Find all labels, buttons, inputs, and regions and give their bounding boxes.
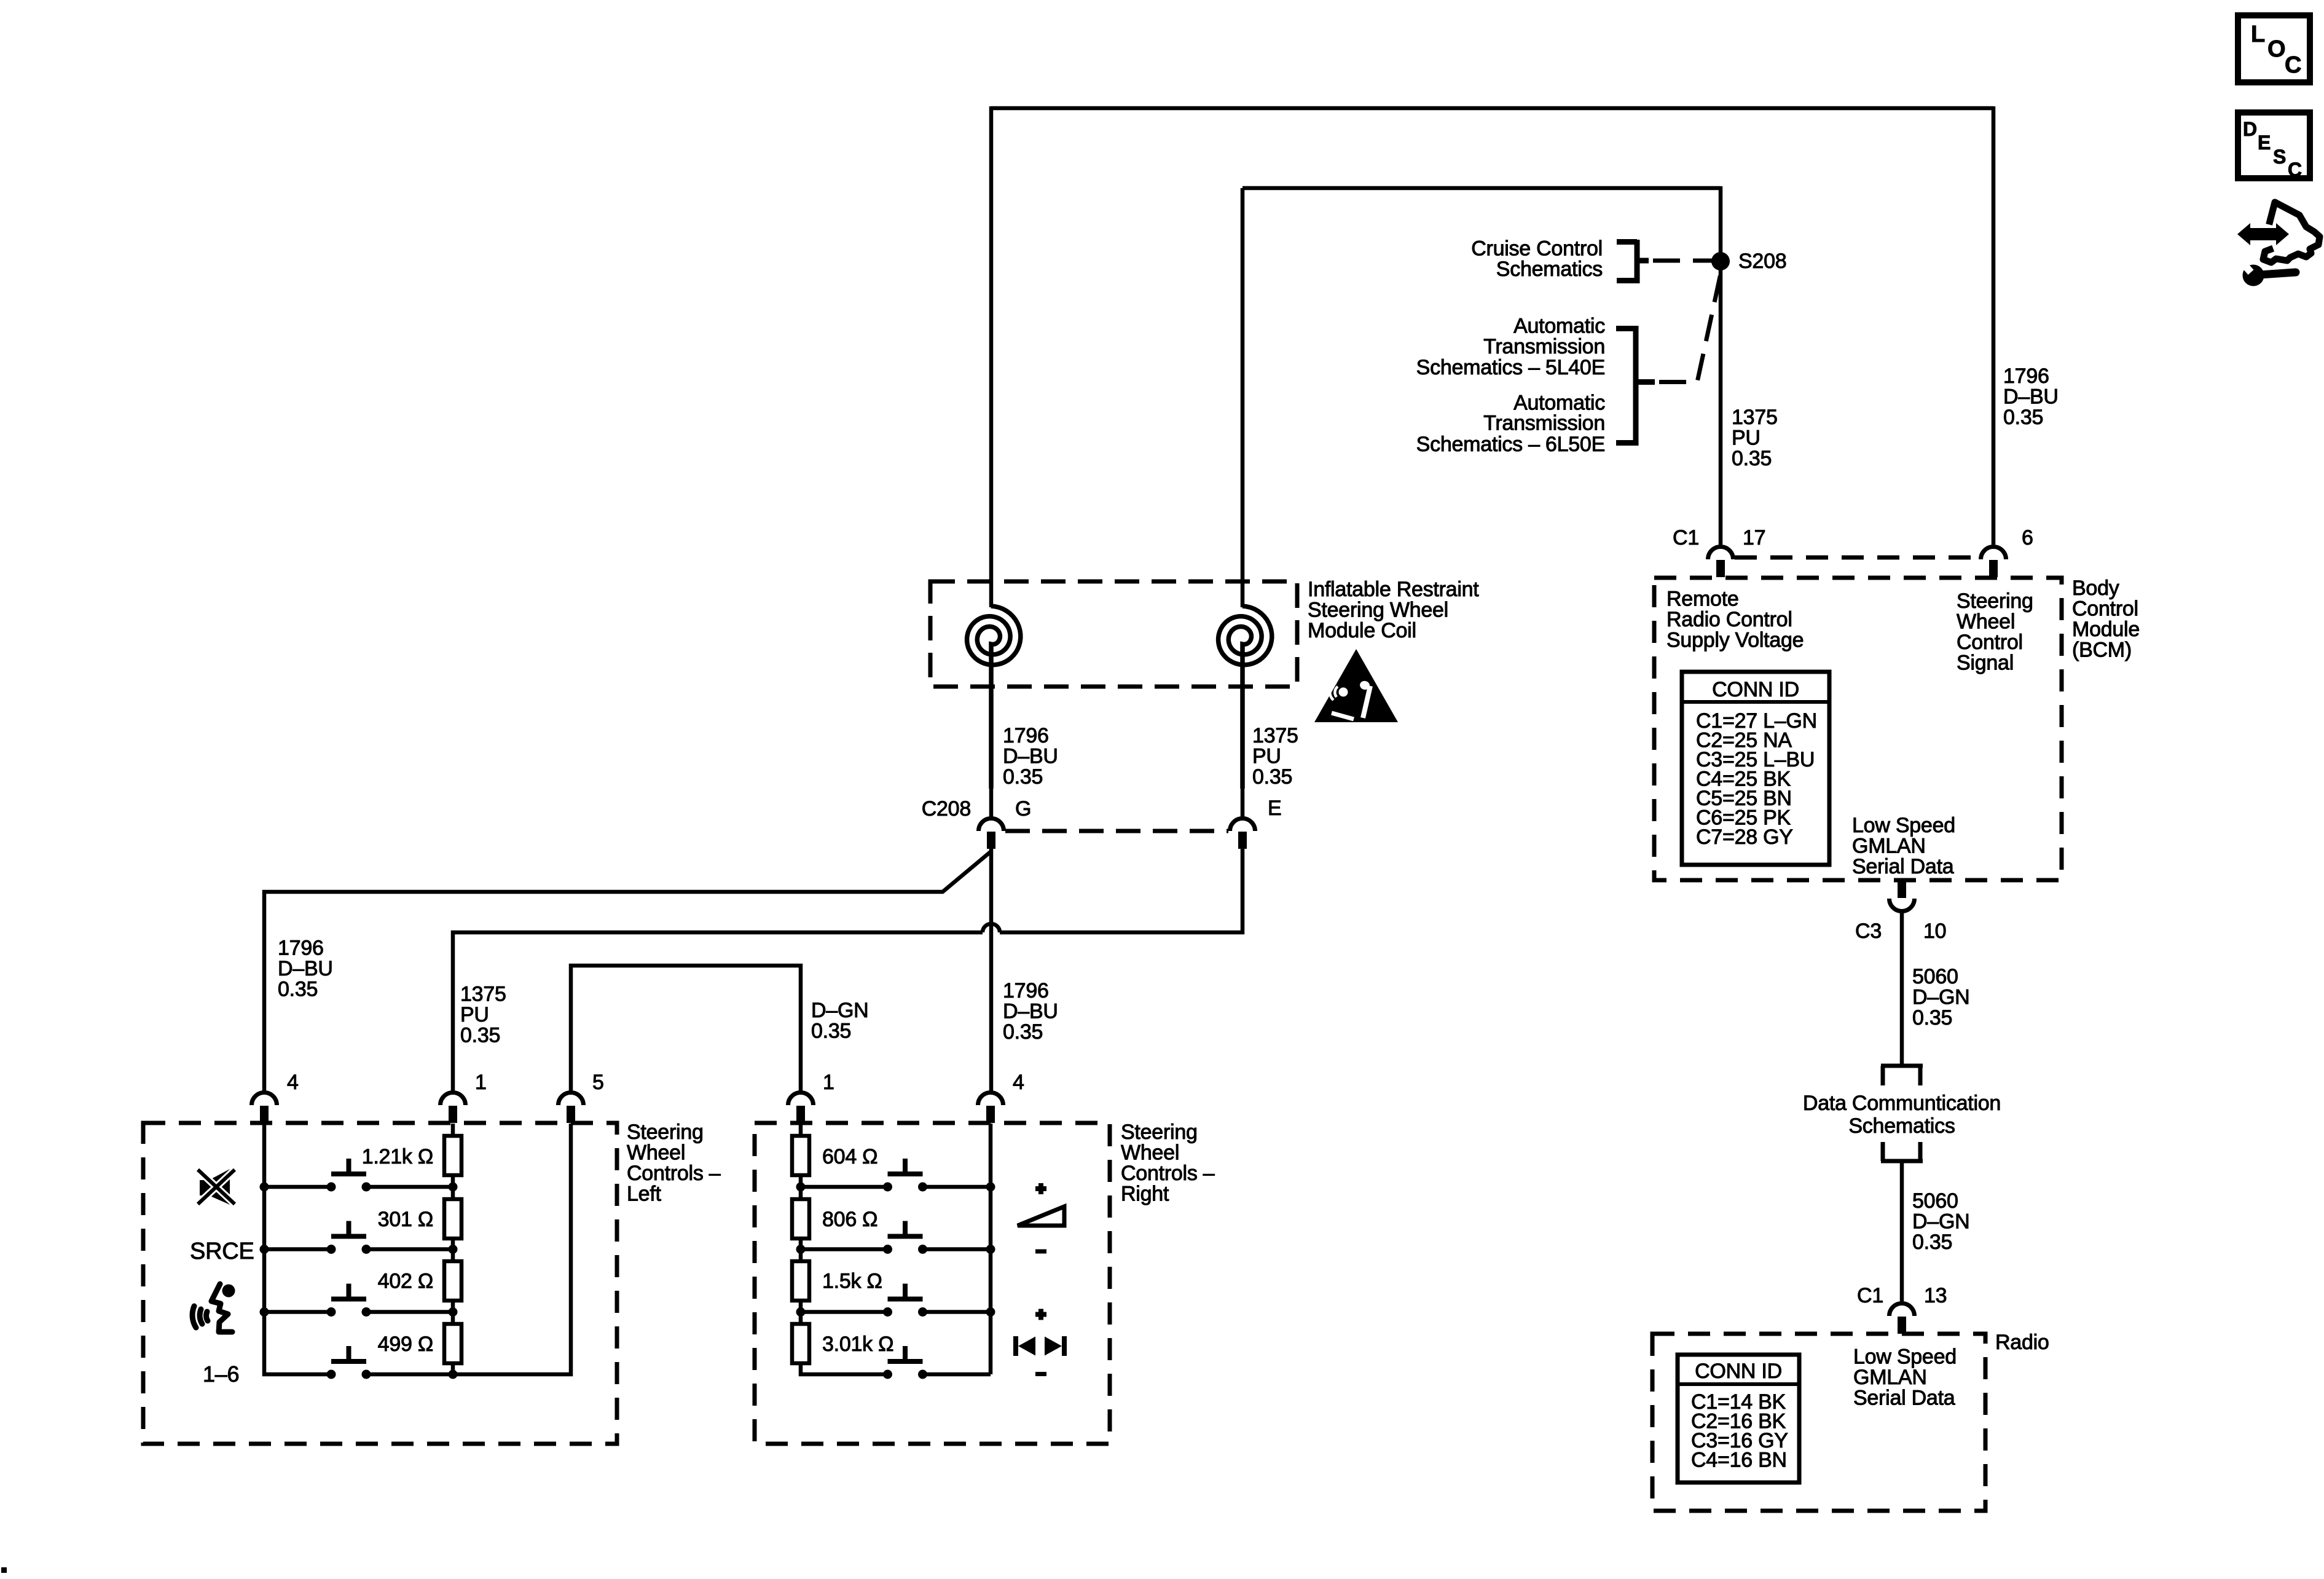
svg-text:6: 6 [2022, 526, 2033, 549]
svg-text:D–BU: D–BU [1003, 745, 1058, 768]
svg-text:1375: 1375 [1252, 724, 1298, 747]
svg-text:0.35: 0.35 [1732, 447, 1772, 470]
svg-text:Supply Voltage: Supply Voltage [1666, 629, 1804, 652]
svg-text:1375: 1375 [1732, 406, 1778, 429]
svg-text:Control: Control [2072, 597, 2138, 621]
svg-text:13: 13 [1924, 1284, 1947, 1307]
svg-text:GMLAN: GMLAN [1852, 835, 1926, 858]
svg-text:Radio: Radio [1995, 1331, 2049, 1354]
svg-text:CONN ID: CONN ID [1695, 1360, 1782, 1383]
svg-text:Schematics: Schematics [1496, 258, 1603, 281]
svg-text:10: 10 [1923, 919, 1946, 943]
svg-text:Wheel: Wheel [627, 1141, 685, 1165]
svg-text:5060: 5060 [1912, 965, 1958, 988]
svg-text:D–BU: D–BU [2003, 385, 2059, 409]
svg-text:Transmission: Transmission [1483, 412, 1605, 435]
svg-text:Radio Control: Radio Control [1666, 608, 1792, 631]
svg-text:D–GN: D–GN [1912, 986, 1969, 1009]
svg-text:S208: S208 [1738, 250, 1786, 273]
svg-text:Automatic: Automatic [1513, 315, 1605, 338]
svg-text:Remote: Remote [1666, 588, 1739, 611]
svg-text:Steering: Steering [1957, 589, 2033, 613]
svg-text:5060: 5060 [1912, 1189, 1958, 1213]
svg-text:Module Coil: Module Coil [1308, 619, 1416, 642]
svg-text:O: O [2267, 36, 2285, 62]
svg-text:Cruise Control: Cruise Control [1471, 237, 1603, 260]
svg-text:PU: PU [1732, 427, 1761, 450]
svg-text:17: 17 [1743, 526, 1765, 549]
svg-text:C: C [2288, 159, 2302, 181]
svg-text:0.35: 0.35 [278, 978, 318, 1001]
svg-text:Data Communtication: Data Communtication [1803, 1092, 2001, 1115]
svg-text:0.35: 0.35 [1003, 1020, 1043, 1044]
svg-text:D: D [2243, 118, 2257, 140]
svg-text:5: 5 [592, 1071, 604, 1094]
svg-text:4: 4 [1013, 1071, 1024, 1094]
svg-text:Left: Left [627, 1183, 662, 1206]
svg-text:Control: Control [1957, 631, 2023, 654]
svg-text:1: 1 [823, 1071, 834, 1094]
svg-text:1: 1 [475, 1071, 487, 1094]
svg-text:C3: C3 [1855, 919, 1882, 943]
svg-text:L: L [2251, 22, 2265, 47]
svg-text:PU: PU [1252, 745, 1281, 768]
svg-text:0.35: 0.35 [2003, 406, 2043, 429]
svg-text:1796: 1796 [2003, 364, 2049, 388]
svg-text:1–6: 1–6 [203, 1361, 239, 1387]
svg-text:0.35: 0.35 [811, 1020, 851, 1043]
svg-text:CONN ID: CONN ID [1712, 678, 1799, 701]
svg-text:604 Ω: 604 Ω [822, 1145, 877, 1168]
svg-text:0.35: 0.35 [460, 1024, 500, 1047]
svg-text:3.01k Ω: 3.01k Ω [822, 1333, 893, 1356]
svg-text:Schematics – 6L50E: Schematics – 6L50E [1416, 433, 1605, 456]
svg-text:C1: C1 [1857, 1284, 1883, 1307]
svg-text:Right: Right [1121, 1183, 1169, 1206]
svg-text:E: E [1268, 797, 1281, 820]
svg-text:Module: Module [2072, 618, 2140, 641]
svg-text:806 Ω: 806 Ω [822, 1208, 877, 1231]
svg-text:E: E [2258, 132, 2271, 154]
svg-text:Low Speed: Low Speed [1853, 1345, 1957, 1369]
svg-text:1.21k Ω: 1.21k Ω [362, 1145, 433, 1168]
svg-text:C208: C208 [922, 797, 971, 821]
svg-text:0.35: 0.35 [1912, 1006, 1952, 1030]
svg-text:D–GN: D–GN [1912, 1210, 1969, 1234]
svg-text:4: 4 [287, 1071, 299, 1094]
svg-text:Wheel: Wheel [1957, 610, 2015, 634]
svg-text:G: G [1015, 797, 1031, 821]
svg-text:Automatic: Automatic [1513, 391, 1605, 414]
svg-text:0.35: 0.35 [1003, 765, 1043, 789]
svg-text:Schematics: Schematics [1848, 1114, 1955, 1138]
svg-text:Signal: Signal [1957, 652, 2014, 675]
svg-text:Low Speed: Low Speed [1852, 814, 1955, 837]
svg-text:Transmission: Transmission [1483, 335, 1605, 358]
svg-text:PU: PU [460, 1003, 489, 1026]
svg-text:0.35: 0.35 [1912, 1231, 1952, 1254]
svg-text:C: C [2285, 52, 2301, 78]
svg-text:301 Ω: 301 Ω [378, 1208, 433, 1231]
svg-text:Controls –: Controls – [1121, 1162, 1215, 1185]
svg-text:1796: 1796 [278, 937, 324, 960]
svg-text:GMLAN: GMLAN [1853, 1366, 1927, 1389]
svg-text:S: S [2273, 146, 2286, 168]
svg-text:C4=16 BN: C4=16 BN [1691, 1449, 1787, 1472]
svg-text:1796: 1796 [1003, 979, 1049, 1002]
svg-text:Body: Body [2072, 577, 2119, 600]
svg-text:C1: C1 [1673, 526, 1699, 549]
svg-text:(BCM): (BCM) [2072, 639, 2132, 662]
svg-text:SRCE: SRCE [190, 1238, 254, 1264]
svg-text:1796: 1796 [1003, 724, 1049, 747]
svg-text:D–GN: D–GN [811, 999, 868, 1022]
svg-text:D–BU: D–BU [1003, 1000, 1058, 1023]
svg-text:0.35: 0.35 [1252, 765, 1292, 789]
svg-text:Serial Data: Serial Data [1853, 1387, 1955, 1410]
svg-text:Serial Data: Serial Data [1852, 855, 1954, 878]
svg-text:Inflatable Restraint: Inflatable Restraint [1308, 578, 1479, 601]
svg-text:Steering: Steering [1121, 1120, 1198, 1144]
svg-text:Steering Wheel: Steering Wheel [1308, 599, 1448, 622]
svg-text:402 Ω: 402 Ω [378, 1270, 433, 1293]
svg-text:Controls –: Controls – [627, 1162, 721, 1185]
svg-text:Steering: Steering [627, 1120, 704, 1144]
svg-text:499 Ω: 499 Ω [378, 1333, 433, 1356]
svg-text:D–BU: D–BU [278, 957, 333, 980]
svg-text:1.5k Ω: 1.5k Ω [822, 1270, 882, 1293]
svg-text:Schematics – 5L40E: Schematics – 5L40E [1416, 356, 1605, 379]
svg-text:C7=28 GY: C7=28 GY [1696, 825, 1793, 849]
svg-text:Wheel: Wheel [1121, 1141, 1179, 1165]
svg-text:1375: 1375 [460, 983, 506, 1006]
